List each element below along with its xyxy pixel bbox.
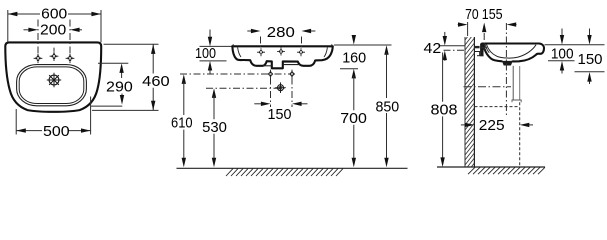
- svg-text:100: 100: [195, 45, 216, 62]
- svg-text:610: 610: [171, 115, 193, 132]
- svg-text:42: 42: [424, 40, 442, 57]
- svg-text:850: 850: [375, 98, 399, 115]
- svg-text:600: 600: [41, 6, 67, 23]
- svg-text:155: 155: [482, 6, 503, 23]
- svg-text:460: 460: [142, 73, 169, 90]
- svg-text:530: 530: [202, 119, 227, 136]
- svg-text:290: 290: [106, 78, 133, 95]
- svg-text:150: 150: [268, 106, 292, 123]
- svg-text:150: 150: [578, 51, 603, 68]
- svg-text:160: 160: [342, 50, 366, 67]
- svg-text:100: 100: [551, 46, 574, 63]
- svg-text:500: 500: [43, 123, 70, 140]
- svg-text:225: 225: [479, 117, 505, 134]
- svg-text:200: 200: [40, 21, 66, 38]
- svg-text:700: 700: [340, 110, 367, 127]
- svg-text:808: 808: [431, 102, 458, 119]
- svg-text:70: 70: [465, 6, 479, 23]
- svg-text:280: 280: [267, 24, 295, 41]
